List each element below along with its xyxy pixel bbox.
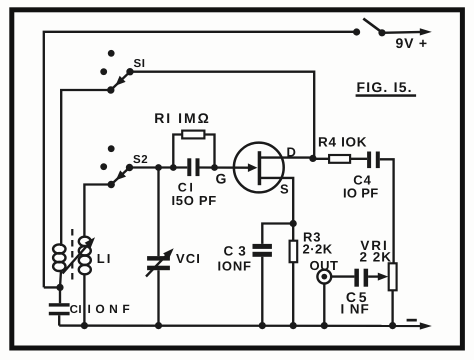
- capacitor C1 10NF: [49, 287, 70, 325]
- resistor R1: [173, 131, 214, 168]
- wire S2 common to L1 secondary top: [84, 185, 111, 238]
- switch S2: [100, 145, 148, 188]
- node source junction: [290, 220, 297, 227]
- svg-text:IONF: IONF: [218, 259, 252, 274]
- variable capacitor VC1: [146, 168, 177, 326]
- node L1 bottom / C1 junction: [56, 284, 63, 291]
- capacitor C1 150 PF: [187, 158, 199, 176]
- resistor R3: [290, 224, 298, 326]
- svg-text:LI: LI: [97, 251, 113, 266]
- svg-text:IONF: IONF: [88, 302, 135, 316]
- svg-text:2 2K: 2 2K: [360, 250, 393, 265]
- wire source to R3 node: [261, 178, 293, 224]
- wire S1 pole to drain node: [130, 72, 314, 159]
- svg-text:IO PF: IO PF: [343, 185, 378, 200]
- node rail L1: [81, 322, 88, 329]
- label FIG. 15.: [356, 79, 417, 97]
- capacitor C3: [253, 244, 272, 326]
- svg-text:OUT: OUT: [310, 258, 339, 273]
- switch S1: [100, 50, 145, 94]
- capacitor C5: [354, 269, 368, 287]
- node drain junction: [309, 155, 316, 162]
- capacitor C4: [367, 152, 394, 264]
- svg-text:I NF: I NF: [341, 302, 370, 317]
- svg-text:R4 IOK: R4 IOK: [318, 135, 367, 150]
- wire S1 common to L1 primary top: [61, 90, 111, 245]
- svg-text:SI: SI: [134, 58, 146, 70]
- inductor L1 transformer primary coil: [53, 244, 65, 287]
- svg-text:S2: S2: [133, 154, 148, 166]
- L1 tuning arrow: [63, 235, 98, 274]
- svg-text:D: D: [287, 145, 296, 160]
- svg-text:I5O PF: I5O PF: [172, 193, 217, 208]
- node rail R3: [290, 322, 297, 329]
- resistor R4: [313, 155, 367, 163]
- svg-text:2·2K: 2·2K: [303, 241, 333, 256]
- svg-text:CI: CI: [70, 304, 83, 316]
- svg-text:9V +: 9V +: [396, 35, 428, 51]
- wire battery positive lead with arrow: [382, 28, 432, 35]
- node R1 left: [170, 164, 177, 171]
- wire source node to C3: [262, 224, 293, 244]
- svg-text:C3: C3: [224, 244, 251, 259]
- transistor TR1 (FET): [234, 143, 284, 193]
- node rail C3: [259, 322, 266, 329]
- node rail jack: [321, 322, 328, 329]
- svg-text:VCI: VCI: [176, 251, 201, 266]
- node rail VR1: [389, 322, 396, 329]
- node VC1 tap: [155, 164, 162, 171]
- wire S2 pole to gate through C1: [130, 166, 188, 168]
- L1 core dashed line: [71, 229, 73, 281]
- svg-text:S: S: [280, 182, 289, 197]
- on-off switch (battery switch): [353, 19, 386, 37]
- wire left rail to C1 junction: [44, 286, 60, 288]
- svg-text:RI IMΩ: RI IMΩ: [154, 110, 211, 126]
- svg-text:FIG. I5.: FIG. I5.: [357, 79, 413, 95]
- battery minus label: [407, 319, 417, 322]
- rail arrow: [420, 322, 432, 329]
- output jack OUT: [317, 270, 354, 326]
- inductor L1 transformer secondary coil: [79, 237, 91, 326]
- wire drain to node: [261, 156, 313, 158]
- node rail VC1: [155, 322, 162, 329]
- bottom ground rail: [59, 324, 423, 327]
- svg-text:G: G: [216, 171, 227, 187]
- node R1 right / gate: [211, 164, 218, 171]
- potentiometer VR1: [368, 263, 397, 325]
- wire top rail from top-left corner to on-off switch: [44, 32, 357, 288]
